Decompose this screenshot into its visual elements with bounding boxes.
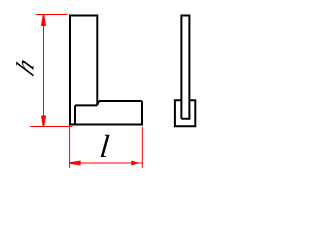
svg-text:h: h (11, 52, 39, 81)
h bottom extension line (30, 126, 72, 128)
l left extension line (69, 126, 71, 169)
h top extension line (36, 14, 68, 16)
h dimension line (43, 15, 45, 127)
l dimension left arrow (70, 161, 81, 166)
h dimension top arrow (41, 15, 46, 26)
l dimension line (70, 162, 143, 164)
stock (side view) (175, 100, 195, 126)
stock bottom edge (front view) (69, 124, 143, 126)
stock step chamfer (97, 101, 100, 105)
l dimension right arrow (131, 161, 142, 166)
blade (front view) (70, 16, 97, 126)
stock top edge (front view) (101, 100, 143, 102)
stock right edge (front view) (141, 101, 143, 125)
blade (side view) (181, 16, 189, 119)
h dimension bottom arrow (41, 116, 46, 127)
stock seat edge (front view) (75, 104, 97, 106)
l right extension line (141, 127, 143, 168)
svg-text:l: l (98, 128, 111, 164)
stock left edge (front view) (74, 105, 76, 124)
